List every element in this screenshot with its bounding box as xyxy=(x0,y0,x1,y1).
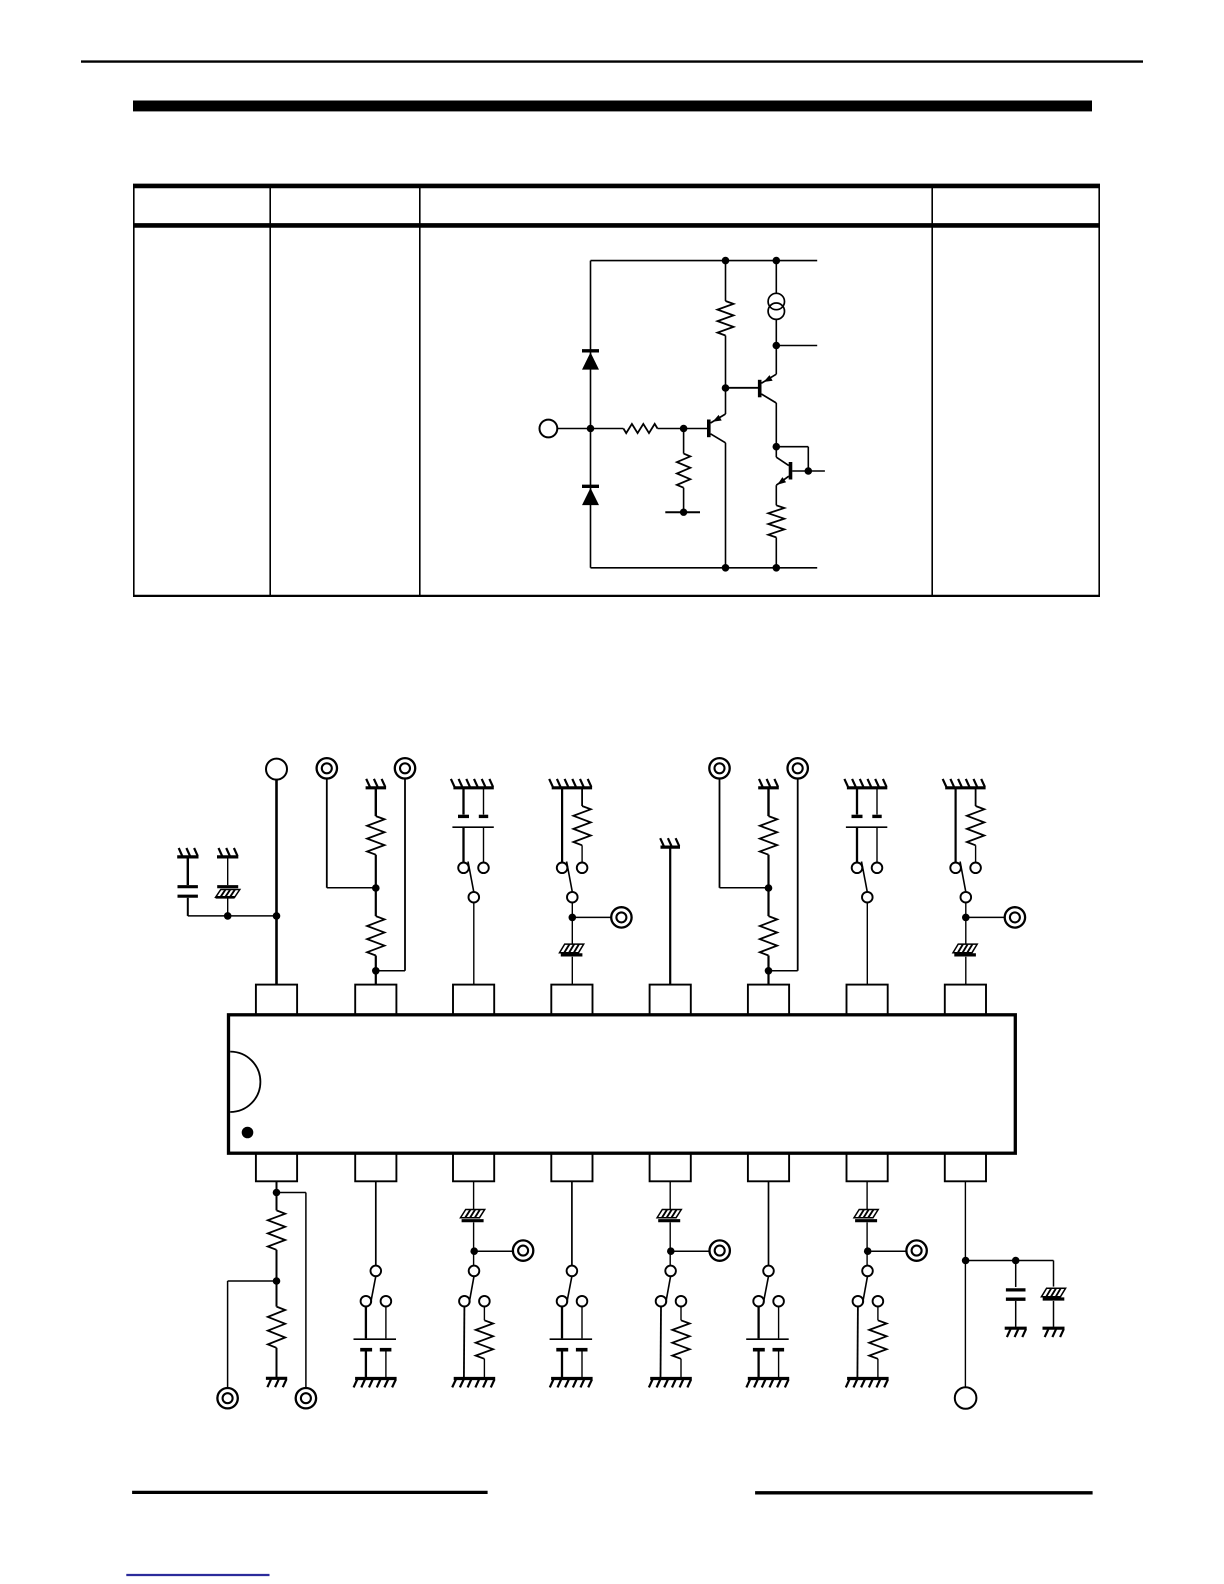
wire tap to terminal xyxy=(474,1250,512,1252)
pin 6 (top) xyxy=(748,985,789,1015)
wire switch left to ground xyxy=(463,1307,466,1378)
capacitor C9b (electrolytic) xyxy=(1041,1288,1065,1327)
terminal J16a xyxy=(217,1388,237,1408)
switch SW11 xyxy=(753,1266,784,1307)
wire input xyxy=(557,428,623,430)
wire shared rotor plate xyxy=(846,827,887,862)
wire output stub xyxy=(776,345,817,347)
page top rule xyxy=(81,60,1143,62)
wire to J16b xyxy=(277,1193,306,1388)
node pin1 / cap link xyxy=(273,912,281,920)
ground (pin 15) xyxy=(354,1379,397,1388)
terminal J6a xyxy=(709,758,729,778)
node pin 10 tap xyxy=(864,1247,872,1255)
switch SW3 xyxy=(458,862,489,903)
ground (pin 6 R chain) xyxy=(758,779,779,788)
node pin 16 top xyxy=(273,1189,281,1197)
current source CS1 xyxy=(768,261,784,346)
wire pin 5 xyxy=(669,847,671,985)
ground (pin 12) xyxy=(649,1379,692,1388)
wire shared plate xyxy=(354,1338,397,1340)
capacitor fixed plates xyxy=(556,1350,587,1378)
switch SW12 xyxy=(656,1266,687,1307)
wire tap to terminal xyxy=(868,1250,906,1252)
node C9a junction xyxy=(1012,1257,1020,1265)
resistor R12 xyxy=(672,1307,689,1378)
wire J6a drop xyxy=(720,779,769,888)
node input junction xyxy=(587,425,595,433)
resistor R8 xyxy=(967,788,984,863)
input terminal xyxy=(540,420,558,438)
ground (pin 13) xyxy=(550,1379,593,1388)
wire to J2b xyxy=(376,779,405,971)
wire left branch xyxy=(590,261,592,568)
pin 12 (bottom) xyxy=(650,1153,691,1181)
capacitor C1 xyxy=(178,857,198,916)
node base junction xyxy=(680,425,688,433)
node Q1 emitter junction xyxy=(722,384,730,392)
node bottom rail / Q1 xyxy=(722,564,730,572)
wire cap group to pin1 xyxy=(188,915,277,917)
capacitor fixed plates xyxy=(753,1350,784,1378)
wire J2a drop xyxy=(327,779,376,888)
capacitor C13a xyxy=(561,1307,563,1339)
terminal J2b xyxy=(395,758,415,778)
ground (C2) xyxy=(217,848,238,857)
switch SW15 xyxy=(361,1266,392,1307)
pin 4 (top) xyxy=(551,985,592,1015)
wire pin 16 xyxy=(276,1181,278,1210)
node top rail / R3 xyxy=(722,257,730,265)
wire shared plate xyxy=(550,1338,593,1340)
wire switch to pin 3 xyxy=(473,903,475,985)
resistor R6b xyxy=(760,916,777,985)
pin 8 (top) xyxy=(945,985,986,1015)
wire tap to terminal xyxy=(671,1250,709,1252)
node C2 junction xyxy=(224,912,232,920)
ground (pin 11) xyxy=(746,1379,789,1388)
capacitor C13b xyxy=(581,1307,583,1339)
wire pin 4 ground leg xyxy=(561,788,563,863)
pin 5 (top) xyxy=(650,985,691,1015)
terminal J16b xyxy=(296,1388,316,1408)
capacitor C4 (electrolytic) xyxy=(560,944,584,985)
IC U1 body xyxy=(229,1015,1016,1153)
node pin 14 tap xyxy=(470,1247,478,1255)
capacitor C3a (variable) xyxy=(458,788,469,817)
node pin 16 tap xyxy=(273,1277,281,1285)
node pin 9 tap xyxy=(962,1257,970,1265)
node pin 2 divider tap xyxy=(372,855,380,916)
wire Q3 base loop xyxy=(776,447,825,471)
terminal J2a xyxy=(317,758,337,778)
diode D1 xyxy=(582,351,599,370)
pin 2 (top) xyxy=(355,985,396,1015)
pin 1 (top) xyxy=(256,985,297,1015)
ground (pin 4) xyxy=(549,779,592,788)
wire switch to pin 7 xyxy=(866,903,868,985)
node pin 6 divider tap xyxy=(765,855,773,916)
footer rule left xyxy=(132,1491,488,1494)
node pin 12 tap xyxy=(667,1247,675,1255)
terminal J12 xyxy=(710,1240,730,1260)
capacitor C15b xyxy=(385,1307,387,1339)
wire shared rotor plate xyxy=(452,827,493,862)
node CS output xyxy=(773,342,781,350)
wire pin 9 caps branch xyxy=(966,1261,1054,1287)
wire top rail xyxy=(591,260,818,262)
terminal J14 xyxy=(513,1240,533,1260)
resistor R2b xyxy=(367,916,384,985)
node pin 4 tap xyxy=(569,903,577,945)
resistor R1 (base series) xyxy=(623,424,707,433)
table grid xyxy=(133,185,1100,597)
resistor R16a xyxy=(268,1210,285,1306)
ground (C9b) xyxy=(1043,1328,1065,1337)
ground (pin 10) xyxy=(846,1379,889,1388)
hyperlink underline xyxy=(126,1574,269,1576)
wire to J16a xyxy=(228,1281,277,1388)
resistor R4 (Q3 emitter) xyxy=(768,505,784,568)
pin 9 (bottom) xyxy=(945,1153,986,1181)
terminal J10 xyxy=(906,1240,926,1260)
switch SW14 xyxy=(459,1266,490,1307)
pin 15 (bottom) xyxy=(355,1153,396,1181)
switch SW13 xyxy=(557,1266,588,1307)
pin 14 (bottom) xyxy=(453,1153,494,1181)
wire pin 11 xyxy=(768,1181,770,1265)
ground (pin 3 caps) xyxy=(451,779,494,788)
wire switch left to ground xyxy=(856,1307,859,1378)
node pin 2 bottom tap xyxy=(372,967,380,975)
wire pin 8 ground leg xyxy=(954,788,956,863)
resistor R10 xyxy=(869,1307,886,1378)
wire pin 15 xyxy=(375,1181,377,1265)
terminal J6b xyxy=(788,758,808,778)
capacitor C2 (electrolytic) xyxy=(216,857,240,916)
capacitor C7a (variable) xyxy=(852,788,863,817)
capacitor C9a xyxy=(1006,1261,1026,1327)
capacitor fixed plates xyxy=(360,1350,391,1378)
wire tap to terminal xyxy=(572,916,611,918)
ground (cell) xyxy=(665,509,700,516)
wire pin1 vertical xyxy=(275,780,278,985)
capacitor C8 (electrolytic) xyxy=(953,944,977,985)
ground (pin 8) xyxy=(943,779,986,788)
ground (pin 16) xyxy=(266,1378,287,1387)
pin 7 (top) xyxy=(847,985,888,1015)
pin 3 (top) xyxy=(453,985,494,1015)
wire pin 9 xyxy=(964,1181,966,1387)
wire Q2 base xyxy=(726,387,759,389)
resistor R4 xyxy=(573,788,590,863)
resistor R16b xyxy=(268,1307,285,1378)
ground (C9a) xyxy=(1005,1328,1027,1337)
terminal J4 xyxy=(611,907,631,927)
capacitor C10 (electrolytic) xyxy=(854,1181,878,1265)
node pin 8 tap xyxy=(962,903,970,945)
wire switch left to ground xyxy=(660,1307,663,1378)
wire pin 13 xyxy=(571,1181,573,1265)
node Q2 collector junction xyxy=(773,443,781,451)
node bottom rail / R4 xyxy=(773,564,781,572)
ground (pin 14) xyxy=(452,1379,495,1388)
wire shared plate xyxy=(746,1338,789,1340)
pin 16 (bottom) xyxy=(256,1153,297,1181)
terminal (output, pin 9) xyxy=(955,1387,977,1409)
transistor Q2 xyxy=(760,346,777,447)
footer rule right xyxy=(755,1491,1093,1494)
wire tap to terminal xyxy=(966,916,1005,918)
terminal J8 xyxy=(1005,907,1025,927)
ground (pin 2 R chain) xyxy=(366,779,387,788)
terminal (antenna input, pin 1) xyxy=(266,759,287,780)
node pin 6 bottom tap xyxy=(765,967,773,975)
switch SW10 xyxy=(853,1266,884,1307)
diode D2 xyxy=(582,486,599,505)
ground (pin 5) xyxy=(660,838,680,847)
transistor Q3 xyxy=(776,447,790,506)
section title bar xyxy=(133,101,1092,112)
node top rail / CS1 xyxy=(773,257,781,265)
resistor R2 (base to ground) xyxy=(677,429,690,512)
switch SW8 xyxy=(950,862,981,903)
resistor R3 (collector load) xyxy=(718,261,734,388)
transistor Q1 xyxy=(709,388,726,568)
wire to J6b xyxy=(769,779,798,971)
switch SW7 xyxy=(852,862,883,903)
capacitor C14 (electrolytic) xyxy=(461,1181,485,1265)
switch SW4 xyxy=(557,862,588,903)
capacitor C11a xyxy=(757,1307,759,1339)
ground (C1) xyxy=(177,848,198,857)
pin 10 (bottom) xyxy=(847,1153,888,1181)
capacitor C11b xyxy=(778,1307,780,1339)
capacitor C3b (variable) xyxy=(479,788,488,817)
pin 11 (bottom) xyxy=(748,1153,789,1181)
capacitor C15a xyxy=(365,1307,367,1339)
wire bottom rail xyxy=(591,567,818,569)
ground (pin 7 caps) xyxy=(844,779,887,788)
capacitor C7b (variable) xyxy=(872,788,881,817)
resistor R6a xyxy=(760,788,777,855)
pin 13 (bottom) xyxy=(551,1153,592,1181)
resistor R14 xyxy=(476,1307,493,1378)
node Q3 base junction xyxy=(805,467,813,475)
capacitor C12 (electrolytic) xyxy=(657,1181,681,1265)
resistor R2a xyxy=(367,788,384,855)
